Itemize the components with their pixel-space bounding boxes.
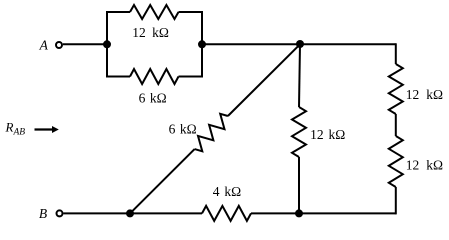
wire bottom lead-out (179, 76, 204, 78)
svg-text:6kΩ: 6kΩ (139, 91, 167, 106)
wire parallel-rect left vertical (106, 12, 108, 77)
terminal A open circle (56, 42, 62, 48)
wire bottom 4k lead-in (130, 212, 202, 214)
wire top lead-in (106, 11, 130, 13)
svg-text:12kΩ: 12kΩ (310, 127, 345, 142)
svg-text:12kΩ: 12kΩ (406, 87, 443, 102)
wire parallel-rect right vertical (201, 12, 203, 77)
wire right branch upper lead (395, 43, 397, 64)
wire bottom lead-in (106, 76, 130, 78)
wire top node to right branch (300, 43, 396, 45)
wire top lead-out (179, 11, 204, 13)
wire middle branch upper lead (299, 44, 300, 107)
resistor R 6k parallel (130, 69, 179, 84)
svg-text:12kΩ: 12kΩ (132, 25, 169, 40)
resistor R 12k right lower (389, 136, 403, 187)
wire bottom right (299, 212, 396, 214)
svg-text:12kΩ: 12kΩ (406, 158, 443, 173)
wire 4k to middle junction (251, 212, 299, 214)
terminal B open circle (57, 210, 63, 216)
wire right branch middle lead (395, 114, 397, 136)
wire B terminal to junction (64, 212, 131, 214)
node junction dot 2 (198, 40, 206, 48)
svg-text:RAB: RAB (5, 119, 26, 137)
node bottom left junction (126, 209, 134, 217)
resistor R 12k right upper (389, 64, 403, 114)
svg-text:A: A (39, 38, 49, 53)
node bottom middle junction (295, 209, 303, 217)
wire A terminal to junction 1 (63, 43, 107, 45)
wire right branch lower lead (395, 187, 397, 214)
wire junction 2 to top node (202, 43, 300, 45)
svg-text:B: B (39, 206, 47, 221)
resistor R 12k top (130, 5, 179, 19)
svg-text:6kΩ: 6kΩ (169, 122, 197, 137)
resistor R 12k middle (292, 107, 306, 157)
resistor R 6k diagonal (195, 114, 228, 152)
wire diagonal lower lead (130, 149, 195, 213)
svg-text:4kΩ: 4kΩ (213, 184, 241, 199)
wire diagonal upper lead (228, 44, 300, 116)
wire middle branch lower lead (298, 157, 300, 213)
arrow R_AB (35, 126, 59, 133)
node junction dot 1 (103, 40, 111, 48)
resistor R 4k (202, 206, 251, 221)
node top node (296, 40, 304, 48)
